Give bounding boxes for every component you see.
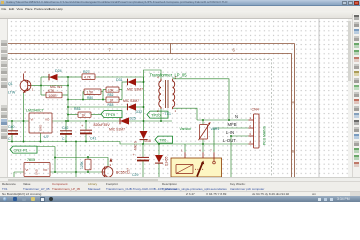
wire corner down to D31 row: [143, 77, 145, 82]
vertical scrollbar: [348, 19, 352, 177]
wire 100R bottom left: [41, 94, 46, 96]
svg-text:Transformer_LP_05: Transformer_LP_05: [150, 73, 188, 78]
svg-text:BC557: BC557: [116, 171, 127, 175]
wire R84 top link: [55, 158, 108, 167]
svg-text:Q1: Q1: [8, 82, 13, 86]
wire VO rail: [52, 120, 120, 122]
wire 7805 in: [14, 172, 24, 177]
left toolbar: [0, 19, 8, 177]
horizontal scrollbar strip: [0, 177, 360, 181]
svg-text:C42: C42: [62, 126, 68, 130]
svg-text:L-OUT: L-OUT: [223, 138, 236, 143]
svg-text:D1455: D1455: [165, 156, 169, 166]
svg-text:D32: D32: [136, 110, 143, 114]
regulator U7 LM2940CT: [29, 113, 52, 133]
wire transformer p2 drop: [160, 108, 162, 122]
wire x76 down: [75, 142, 77, 178]
wire Q1 base to loop: [31, 85, 41, 87]
wire Q1 emitter drop: [23, 93, 25, 142]
test point flag TP6: [155, 136, 173, 143]
svg-text:MIC S3M7: MIC S3M7: [123, 99, 139, 103]
svg-text:D25: D25: [130, 116, 136, 120]
wire varistor top: [202, 120, 204, 124]
varistor VAR1: [199, 122, 211, 140]
wire lower branch y99: [68, 99, 106, 101]
wire MFB row: [214, 127, 249, 129]
capacitor C41: [80, 123, 92, 133]
svg-text:R83: R83: [108, 103, 114, 107]
wire transformer sec bottom: [173, 108, 197, 120]
svg-text:LM2940CT: LM2940CT: [26, 108, 45, 112]
resistor R27: [82, 74, 95, 80]
svg-text:L-IN: L-IN: [226, 130, 234, 135]
junction dots: [11, 76, 232, 173]
wire to transformer p1: [144, 70, 162, 82]
diode D25: [120, 117, 129, 124]
diode D14 vertical: [140, 131, 148, 140]
toolbar: [0, 11, 360, 19]
wire relay pin1 riser: [184, 144, 186, 152]
wire VO rail right: [129, 120, 172, 122]
resistor R80 1.5K: [84, 89, 101, 95]
wire D32 row right: [136, 106, 144, 108]
wire ground rail: [8, 142, 249, 145]
capacitor C40: [6, 131, 18, 134]
svg-text:TP6: TP6: [159, 138, 167, 143]
wire R83 right: [119, 99, 122, 101]
transistor Q1: [20, 70, 34, 93]
resistor R83 1K: [106, 97, 119, 102]
wire bus x143 lower: [143, 140, 145, 144]
svg-text:VI: VI: [31, 117, 34, 121]
svg-text:D31: D31: [116, 78, 123, 82]
svg-text:GND: GND: [39, 125, 43, 131]
diode D32: [128, 103, 137, 110]
wire 100R bottom right: [62, 94, 68, 96]
schematic canvas: [8, 19, 352, 177]
svg-text:R27: R27: [83, 70, 90, 74]
wire 7805 gnd: [36, 176, 38, 179]
wire R81 left: [68, 114, 78, 116]
page edge line: [318, 19, 320, 177]
svg-text:MIC S1M7: MIC S1M7: [109, 127, 125, 131]
wire transformer sec top: [173, 79, 230, 120]
wire D15 stubs: [158, 144, 160, 177]
resistor R82 10K: [106, 87, 119, 92]
svg-text:TP19: TP19: [106, 112, 116, 117]
svg-text:N: N: [235, 114, 238, 119]
svg-text:1.5K: 1.5K: [87, 91, 95, 95]
test point flag TP20: [147, 111, 168, 118]
svg-text:4.7K: 4.7K: [84, 76, 92, 80]
svg-text:D15: D15: [145, 139, 151, 143]
wire R82 left: [103, 89, 106, 91]
wire C42 stubs: [65, 121, 67, 142]
svg-text:100R: 100R: [49, 94, 58, 98]
diode D15 vertical: [155, 155, 163, 163]
capacitor C29: [133, 152, 150, 161]
diode D24: [49, 74, 58, 81]
svg-text:PCU MAINS: PCU MAINS: [263, 125, 267, 145]
svg-text:C57: C57: [127, 168, 131, 174]
wire bus x143 upper: [143, 82, 145, 131]
svg-text:VAR1: VAR1: [211, 127, 220, 131]
wire D24 top right: [58, 76, 68, 78]
connector flag CN2-P1: [10, 146, 37, 153]
wire D24 loop left: [40, 77, 42, 95]
svg-text:125K: 125K: [80, 160, 84, 169]
message panel: [0, 181, 360, 191]
wire C29 stubs: [142, 144, 144, 177]
wire L-IN drop: [230, 136, 232, 177]
svg-text:VO: VO: [45, 117, 50, 121]
resistor R84 vertical: [80, 159, 91, 170]
svg-text:CN2-P1: CN2-P1: [14, 148, 29, 153]
wire D31 right lead: [136, 81, 144, 83]
regulator 7805: [24, 163, 50, 177]
wire varistor bottom: [202, 139, 204, 152]
svg-text:LTW: LTW: [8, 90, 16, 94]
svg-text:10K: 10K: [108, 88, 115, 92]
svg-text:C41: C41: [90, 137, 96, 141]
svg-text:TX1: TX1: [165, 112, 171, 116]
svg-text:MFB: MFB: [228, 122, 237, 127]
wire C41 stubs: [85, 121, 87, 142]
svg-text:R82: R82: [108, 93, 114, 97]
svg-text:U7: U7: [44, 135, 49, 139]
svg-text:R80: R80: [87, 96, 93, 100]
svg-text:820uF35V: 820uF35V: [94, 123, 111, 127]
windows taskbar: [0, 196, 360, 202]
resistor R81 1K: [78, 112, 91, 117]
sheet frame border: [8, 43, 295, 45]
wire VI rail: [8, 120, 29, 122]
diode D31: [128, 78, 137, 85]
svg-text:MIC S3M7: MIC S3M7: [127, 87, 143, 91]
relay K1: [171, 149, 222, 177]
wire C40 stubs: [11, 121, 13, 142]
wire N row: [197, 119, 249, 121]
wire CN2 link: [37, 147, 55, 173]
wire R82 right: [119, 89, 122, 91]
wire 1.5K left: [83, 92, 84, 100]
wire bus x68: [67, 77, 69, 121]
wire R84 stubs: [87, 157, 89, 172]
wire R81 right: [91, 114, 101, 116]
svg-text:MIC S: MIC S: [134, 141, 138, 150]
svg-text:CN4: CN4: [252, 108, 259, 112]
wire D24 top left: [41, 76, 49, 78]
wire D31 drop to resistors: [121, 82, 123, 100]
wire D31 left lead: [122, 81, 128, 83]
wire L-IN row: [231, 135, 249, 137]
transistor Q2 BC557: [102, 158, 113, 178]
wire 1.5K right: [101, 90, 103, 100]
svg-text:GND: GND: [35, 169, 39, 175]
svg-text:VI: VI: [26, 168, 29, 172]
capacitor C42: [60, 131, 72, 134]
svg-text:VO: VO: [43, 168, 48, 172]
wire loop middle: [41, 85, 68, 87]
right toolbar: [352, 14, 360, 177]
wire R27 to corner: [95, 76, 144, 78]
resistor 100R: [46, 92, 62, 98]
svg-text:D24: D24: [55, 69, 62, 73]
svg-text:Varistor: Varistor: [180, 127, 193, 131]
wire MFB drop to relay: [213, 128, 215, 152]
wire D32 row left: [68, 106, 128, 108]
dashed block selection boundary: [8, 60, 272, 177]
wire VO2 rail: [50, 171, 102, 173]
svg-text:R81: R81: [74, 107, 81, 111]
wire U7 gnd: [40, 133, 42, 142]
svg-text:C40: C40: [8, 125, 14, 129]
svg-text:7805: 7805: [27, 158, 35, 162]
title bar: [0, 0, 360, 6]
status bar: [0, 191, 360, 197]
transformer TX1: [157, 75, 177, 113]
svg-text:TP20: TP20: [151, 113, 161, 118]
test point flag TP19: [101, 111, 122, 118]
wire R27 left: [68, 76, 82, 78]
connector CN4: [249, 114, 260, 148]
menu bar: [0, 6, 360, 12]
